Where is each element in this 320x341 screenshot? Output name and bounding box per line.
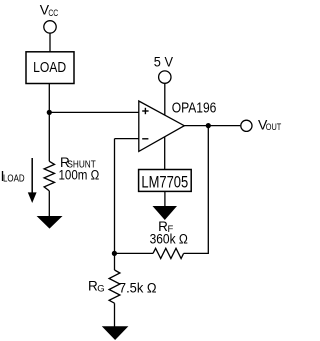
wire RSHUNT to ground <box>48 191 50 217</box>
ground below RG <box>102 326 129 340</box>
regulator LM7705 box <box>139 170 192 192</box>
svg-text:LOAD: LOAD <box>33 59 66 76</box>
svg-text:5 V: 5 V <box>154 54 173 69</box>
resistor RG <box>109 270 120 303</box>
svg-text:360k Ω: 360k Ω <box>150 232 188 247</box>
wire output to feedback row <box>184 126 209 254</box>
current arrow ILOAD <box>31 158 33 194</box>
node VOUT terminal <box>241 120 252 131</box>
load LOAD box <box>26 52 74 84</box>
svg-text:G: G <box>97 284 104 295</box>
svg-text:CC: CC <box>48 8 58 18</box>
wire LM7705 to ground <box>164 191 166 206</box>
svg-text:7.5k Ω: 7.5k Ω <box>119 280 157 295</box>
wire op-amp negative supply to LM7705 <box>164 137 166 170</box>
svg-text:LOAD: LOAD <box>3 174 25 185</box>
wire VCC to LOAD <box>49 33 51 52</box>
svg-text:OPA196: OPA196 <box>172 101 217 117</box>
node feedback junction dot <box>112 251 117 256</box>
wire RF to feedback node <box>114 252 153 254</box>
wire op-amp output <box>184 125 240 127</box>
wire node A to op-amp noninverting input <box>49 111 139 113</box>
svg-text:LM7705: LM7705 <box>141 172 188 191</box>
wire feedback vertical <box>114 139 116 270</box>
node 5V terminal <box>159 71 171 83</box>
wire inverting input <box>115 138 139 140</box>
svg-text:100m Ω: 100m Ω <box>59 167 100 182</box>
resistor RF <box>153 248 184 258</box>
node output junction dot <box>206 123 211 128</box>
ground below RSHUNT <box>37 216 63 229</box>
wire LOAD to RSHUNT <box>48 84 50 162</box>
op-amp plus sign <box>142 110 148 112</box>
op-amp U1 OPA196 <box>139 101 185 151</box>
node A junction dot <box>47 110 52 115</box>
ground below LM7705 <box>153 206 178 220</box>
svg-text:OUT: OUT <box>266 122 282 132</box>
wire RG to ground <box>114 303 116 326</box>
resistor RSHUNT <box>44 161 54 191</box>
wire 5V to op-amp supply <box>164 83 166 115</box>
op-amp minus sign <box>142 138 148 140</box>
node VCC terminal <box>44 21 56 33</box>
